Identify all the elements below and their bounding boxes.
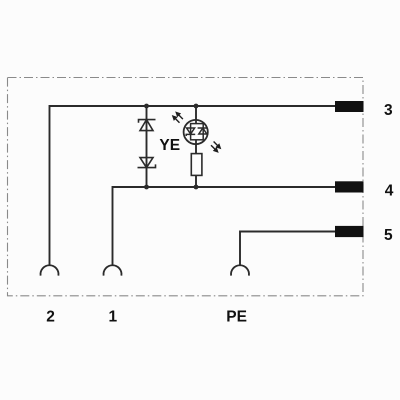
svg-text:1: 1 (108, 308, 117, 325)
svg-text:2: 2 (46, 308, 55, 325)
svg-text:3: 3 (384, 102, 393, 119)
svg-text:PE: PE (226, 308, 247, 325)
svg-text:4: 4 (385, 183, 394, 200)
svg-text:5: 5 (384, 227, 393, 244)
svg-text:YE: YE (159, 137, 180, 154)
